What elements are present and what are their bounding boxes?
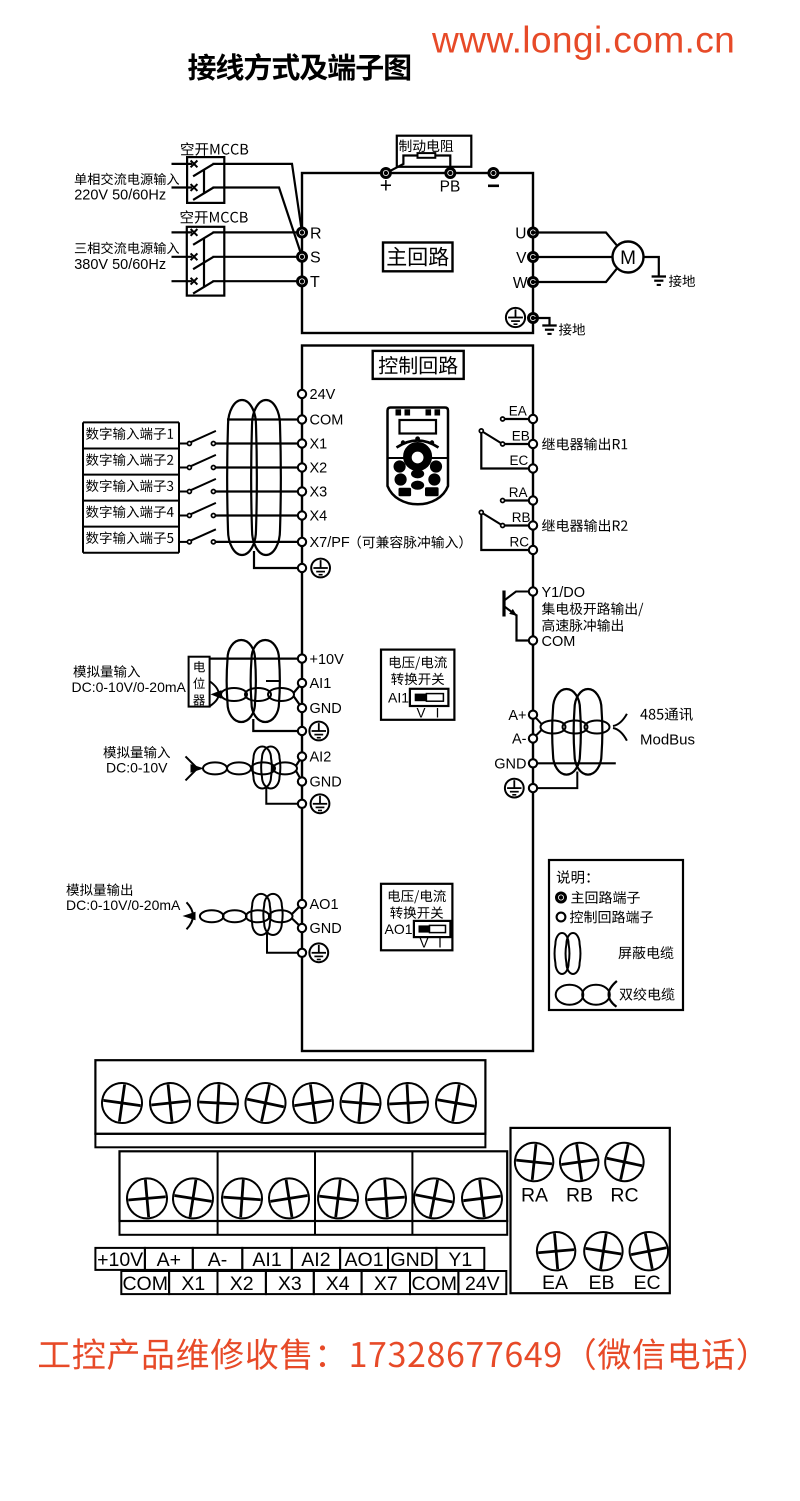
terminal 24V <box>298 390 306 398</box>
screw relay block EB <box>581 1229 625 1273</box>
wire main earth <box>533 318 550 325</box>
breaker blade MCCB2 pole1 <box>193 232 213 244</box>
strip 2 divider 3 <box>411 1151 413 1235</box>
relay R1 blade <box>483 432 501 443</box>
wire R2 common to RC <box>481 514 533 550</box>
MCCB2 link bar <box>203 239 205 288</box>
terminal AI2 <box>298 752 306 760</box>
svg-text:R: R <box>310 225 322 242</box>
svg-text:RB: RB <box>512 510 531 525</box>
screw terminal strip2 #8 <box>460 1176 505 1221</box>
braking resistor box 制动电阻 <box>397 136 472 167</box>
wire EA <box>503 418 533 420</box>
legend shielded cable symbol <box>555 933 570 974</box>
svg-text:www.longi.com.cn: www.longi.com.cn <box>431 19 735 61</box>
svg-text:X1: X1 <box>310 437 328 453</box>
wire chain to GND (AI2) <box>296 770 303 782</box>
svg-text:T: T <box>310 274 320 291</box>
V/I selector box (AI1) <box>381 650 454 720</box>
terminal GND (AI2) <box>298 777 306 785</box>
terminal strip 1 rim <box>95 1134 485 1148</box>
twisted pair chain (AI1) <box>221 688 247 701</box>
contact dot RB <box>501 524 505 528</box>
svg-text:X7: X7 <box>374 1273 398 1295</box>
switch S2 pivot dot <box>187 466 191 470</box>
terminal Y1/DO <box>529 587 537 595</box>
screw relay block RB <box>558 1140 601 1183</box>
strip 2 divider 1 <box>217 1151 219 1235</box>
svg-text:AI2: AI2 <box>301 1249 330 1271</box>
svg-text:GND: GND <box>310 701 342 717</box>
wire MCCB2 pole3 output to T <box>213 280 303 282</box>
terminal label row 2 boxes <box>121 1271 169 1294</box>
wire A- to chain <box>533 730 542 739</box>
svg-text:AI1: AI1 <box>252 1249 281 1271</box>
svg-text:RC: RC <box>610 1185 638 1207</box>
twisted pair fork arc (AO1) <box>187 902 194 929</box>
contact x mark MCCB2 pole2 <box>191 253 198 260</box>
svg-text:COM: COM <box>122 1273 168 1295</box>
breaker MCCB2 box <box>187 227 225 296</box>
PE circle symbol (AI2) <box>311 794 330 813</box>
wire L1 3ph input <box>172 231 193 233</box>
contact dot EA <box>501 417 505 421</box>
svg-text:A-: A- <box>208 1249 228 1271</box>
svg-text:EA: EA <box>509 403 527 418</box>
twisted pair fork (AI2) <box>186 756 198 768</box>
twisted pair chain (AO1) <box>200 910 224 922</box>
twisted pair fork (485) <box>613 714 627 726</box>
terminal PE (AO1) <box>298 949 306 957</box>
wire MCCB1 pole2 output to S <box>213 188 303 257</box>
svg-text:COM: COM <box>310 413 344 429</box>
text 数字输入端子1 <box>86 427 173 440</box>
svg-text:RA: RA <box>521 1185 548 1207</box>
terminal GND (AO1) <box>298 924 306 932</box>
wire digital input 1 to switch <box>179 443 189 445</box>
svg-text:EB: EB <box>588 1272 614 1294</box>
potentiometer box 电位器 <box>189 657 210 707</box>
minus mark (AI1) <box>266 680 280 682</box>
svg-text:+: + <box>380 175 392 198</box>
svg-text:AO1: AO1 <box>385 921 413 937</box>
switch slider (AI1) <box>410 689 449 706</box>
potentiometer wiper arc <box>210 682 219 707</box>
svg-text:X4: X4 <box>310 509 328 525</box>
wire shield drain (AI1) <box>253 719 298 731</box>
shielded cable ellipse pair (AI2) <box>253 747 272 789</box>
motor M1 circle <box>613 242 644 273</box>
screw terminal strip1 #5 <box>290 1080 335 1125</box>
text 双绞电缆 <box>620 988 675 1001</box>
wire shield drain (AO1) <box>267 933 298 953</box>
wire chain to GND (AO1) <box>292 918 303 928</box>
terminal strip 2 rim <box>120 1221 508 1235</box>
svg-text:+10V: +10V <box>310 652 345 668</box>
screw terminal strip1 #3 <box>197 1082 239 1124</box>
transistor Q1 emitter arrow <box>509 609 517 616</box>
text 模拟量输入 (AI1) <box>73 665 140 678</box>
wire L3 3ph input <box>172 280 193 282</box>
transistor Q1 bar <box>502 591 505 617</box>
screw terminal strip2 #4 <box>266 1176 312 1222</box>
svg-text:COM: COM <box>542 634 576 650</box>
screw relay block EA <box>535 1230 577 1272</box>
wire L1 input <box>172 163 193 165</box>
svg-text:EB: EB <box>512 428 530 443</box>
breaker blade MCCB1 pole1 <box>193 164 213 176</box>
wire switch 5 to terminal <box>215 541 302 543</box>
screw terminal strip1 #8 <box>433 1080 479 1126</box>
strip 2 divider 2 <box>314 1151 316 1235</box>
relay R2 blade <box>483 513 501 524</box>
wire U to motor <box>533 233 617 246</box>
text 三相交流电源输入 <box>75 242 179 254</box>
screw relay block RC <box>602 1139 648 1185</box>
terminal RB <box>529 521 537 529</box>
terminal T <box>297 276 308 287</box>
svg-text:+10V: +10V <box>97 1249 143 1271</box>
screw terminal strip2 #2 <box>170 1176 216 1222</box>
wire L2 3ph input <box>172 256 193 258</box>
terminal COM <box>298 415 306 423</box>
svg-text:PB: PB <box>440 179 461 196</box>
svg-text:AO1: AO1 <box>345 1249 384 1271</box>
screw terminal strip2 #6 <box>365 1177 408 1220</box>
breaker MCCB1 box <box>187 157 224 203</box>
control circuit box <box>302 346 533 1052</box>
switch S4 pivot dot <box>187 514 191 518</box>
text 说明： <box>557 870 590 884</box>
svg-text:W: W <box>513 275 528 292</box>
text 接地 (main box) <box>559 323 585 335</box>
svg-text:COM: COM <box>411 1273 457 1295</box>
wire digital input 3 to switch <box>179 491 189 493</box>
text 集电极开路输出/ <box>542 602 643 616</box>
PE circle symbol (digital) <box>311 559 330 578</box>
svg-text:V: V <box>419 935 428 950</box>
svg-text:RC: RC <box>510 534 530 549</box>
text 继电器输出R1 <box>542 438 627 451</box>
svg-text:A+: A+ <box>508 708 526 724</box>
text 485通讯 <box>640 708 692 721</box>
red footer text <box>39 1338 746 1370</box>
screw terminal strip2 #5 <box>316 1176 361 1221</box>
contact x mark MCCB1 pole1 <box>191 161 198 168</box>
terminal EB <box>529 440 537 448</box>
svg-text:X1: X1 <box>181 1273 205 1295</box>
svg-text:S: S <box>310 250 321 267</box>
motor earth symbol <box>652 275 666 277</box>
contact dot RA <box>501 499 505 503</box>
wire chain to AO1 <box>292 904 303 915</box>
main box PE circle symbol <box>506 308 525 327</box>
wire switch 4 to terminal <box>215 514 302 516</box>
switch S1 contact dot <box>211 442 215 446</box>
svg-text:AI2: AI2 <box>310 750 332 766</box>
contact x mark MCCB2 pole3 <box>191 278 198 285</box>
text 模拟量输入 (AI2) <box>103 746 170 759</box>
arrow into chain (AI2) <box>191 764 205 773</box>
text 单相交流电源输入 <box>75 173 179 185</box>
digital input table box <box>83 421 179 423</box>
svg-text:380V 50/60Hz: 380V 50/60Hz <box>74 257 166 273</box>
text 模拟量输出 (AO1) <box>66 883 132 896</box>
breaker blade MCCB2 pole3 <box>193 281 213 293</box>
svg-text:AO1: AO1 <box>310 897 339 913</box>
screw terminal strip2 #1 <box>125 1177 168 1220</box>
twisted pair chain (485) <box>541 721 566 734</box>
svg-text:24V: 24V <box>310 387 336 403</box>
svg-text:X2: X2 <box>230 1273 254 1295</box>
svg-text:DC:0-10V: DC:0-10V <box>106 760 168 776</box>
switch slider (AO1) <box>414 921 451 937</box>
screw relay block EC <box>626 1229 671 1274</box>
terminal PB (main) <box>445 168 456 179</box>
svg-text:GND: GND <box>310 775 342 791</box>
contact dot EB <box>501 442 505 446</box>
terminal S <box>297 251 308 262</box>
legend control terminal symbol <box>557 913 566 922</box>
svg-text:GND: GND <box>494 757 526 773</box>
svg-text:DC:0-10V/0-20mA: DC:0-10V/0-20mA <box>66 897 181 913</box>
switch S4 contact dot <box>211 514 215 518</box>
svg-text:U: U <box>515 225 526 242</box>
terminal EC <box>529 464 537 472</box>
terminal U <box>528 227 539 238</box>
terminal label row 1 boxes <box>95 1248 144 1270</box>
switch S3 contact dot <box>211 490 215 494</box>
svg-text:A+: A+ <box>157 1249 181 1271</box>
shielded cable ellipse pair (485) <box>552 689 581 775</box>
breaker blade MCCB2 pole2 <box>193 257 213 269</box>
svg-text:ModBus: ModBus <box>640 732 695 749</box>
label box 主回路 <box>383 243 453 272</box>
wire chain to AI1 <box>294 683 303 693</box>
terminal GND (AI1) <box>298 704 306 712</box>
text 转换开关 (AI1) <box>391 673 444 686</box>
PE circle symbol (485) <box>505 779 524 798</box>
keypad operator panel <box>388 408 449 505</box>
terminal GND (485) <box>529 759 537 767</box>
resistor symbol <box>418 153 436 158</box>
terminal AI1 <box>298 679 306 687</box>
svg-text:A-: A- <box>512 732 527 748</box>
svg-text:GND: GND <box>310 921 342 937</box>
label box 控制回路 <box>373 351 464 379</box>
svg-text:I: I <box>436 705 440 720</box>
label - <box>488 185 499 188</box>
text 主回路端子 <box>571 891 640 904</box>
switch S4 blade <box>191 503 216 514</box>
wire COM <box>227 418 302 420</box>
switch S5 pivot dot <box>187 540 191 544</box>
svg-text:M: M <box>620 248 636 269</box>
text 数字输入端子5 <box>86 532 173 545</box>
wire chain to GND (AI1) <box>294 696 303 708</box>
text 控制回路端子 <box>570 910 653 923</box>
svg-text:GND: GND <box>391 1249 434 1271</box>
screw terminal strip1 #2 <box>148 1081 192 1125</box>
wire emitter to COM <box>517 615 534 641</box>
relay R1 pivot dot <box>479 429 483 433</box>
switch S5 blade <box>191 529 216 540</box>
text 数字输入端子4 <box>86 506 174 519</box>
svg-text:RB: RB <box>566 1185 593 1207</box>
title 接线方式及端子图 <box>188 53 410 81</box>
terminal PE (AI1) <box>298 727 306 735</box>
wire motor to earth <box>644 257 659 276</box>
terminal main earth <box>528 313 539 324</box>
screw terminal strip2 #7 <box>411 1175 458 1222</box>
terminal RC <box>529 546 537 554</box>
wire switch 3 to terminal <box>215 490 302 492</box>
breaker blade MCCB1 pole2 <box>193 188 213 200</box>
terminal X1 <box>298 439 306 447</box>
PE circle symbol (AI1) <box>309 722 328 741</box>
wire V to motor <box>533 256 613 258</box>
terminal PE (485) <box>529 784 537 792</box>
label 空开MCCB (lower) <box>181 210 248 224</box>
terminal X4 <box>298 511 306 519</box>
terminal RA <box>529 496 537 504</box>
shielded cable ellipse pair (AO1) <box>251 894 270 935</box>
wire resistor to + terminal <box>387 156 418 173</box>
svg-text:AI1: AI1 <box>310 676 332 692</box>
wire L2 input <box>172 186 193 188</box>
switch S2 blade <box>191 455 216 466</box>
text 高速脉冲输出 <box>542 619 623 632</box>
contact x mark MCCB1 pole2 <box>191 184 198 191</box>
svg-text:AI1: AI1 <box>388 689 409 705</box>
terminal R <box>297 227 308 238</box>
twisted pair chain (AI2) <box>203 762 227 774</box>
terminal +10V <box>298 654 306 662</box>
wire shield drain (AI2) <box>266 786 298 804</box>
main earth symbol <box>542 324 556 326</box>
transistor Q1 emitter wire <box>505 607 517 616</box>
wire switch 2 to terminal <box>215 466 302 468</box>
svg-text:DC:0-10V/0-20mA: DC:0-10V/0-20mA <box>72 679 187 695</box>
svg-text:EC: EC <box>633 1272 660 1294</box>
text 数字输入端子3 <box>86 480 173 493</box>
terminal A+ <box>529 711 537 719</box>
wire MCCB1 pole1 output to R <box>213 164 303 233</box>
terminal EA <box>529 415 537 423</box>
text 数字输入端子2 <box>86 453 173 466</box>
shielded cable ellipse pair (AI1) <box>227 640 256 722</box>
shielded cable ellipse pair (digital) <box>227 400 257 555</box>
svg-text:220V 50/60Hz: 220V 50/60Hz <box>74 188 166 204</box>
terminal PE (AI2) <box>298 800 306 808</box>
wire shield drain (485) <box>537 772 577 789</box>
text （可兼容脉冲输入） <box>358 536 463 549</box>
wire shield drain (digital) <box>254 551 298 568</box>
wire EB <box>503 443 533 445</box>
svg-text:V: V <box>416 705 425 720</box>
terminal PE (digital shield) <box>298 564 306 572</box>
switch S5 contact dot <box>211 540 215 544</box>
main circuit box <box>302 173 533 333</box>
switch S3 pivot dot <box>187 490 191 494</box>
screw terminal strip1 #7 <box>387 1082 429 1124</box>
terminal A- <box>529 734 537 742</box>
wire switch 1 to terminal <box>215 442 302 444</box>
wire +10V <box>210 657 302 659</box>
screw terminal strip1 #6 <box>339 1081 382 1124</box>
svg-text:X4: X4 <box>326 1273 350 1295</box>
svg-text:Y1/DO: Y1/DO <box>542 585 586 601</box>
svg-text:EA: EA <box>542 1272 568 1294</box>
terminal - (main) <box>488 168 499 179</box>
switch S3 blade <box>191 479 216 490</box>
wire MCCB2 pole1 output to R <box>213 231 303 233</box>
wire digital input 5 to switch <box>179 541 189 543</box>
text 制动电阻 <box>399 139 453 152</box>
legend twisted pair symbol <box>556 985 584 1005</box>
legend main terminal symbol <box>556 892 567 903</box>
text 屏蔽电缆 <box>618 946 673 959</box>
svg-text:X2: X2 <box>310 461 328 477</box>
potentiometer wiper arrow <box>211 690 222 699</box>
label 空开MCCB (upper) <box>181 142 248 156</box>
text 电压/电流 (AO1) <box>389 890 446 904</box>
wire digital input 2 to switch <box>179 467 189 469</box>
terminal strip 1 body <box>95 1060 485 1134</box>
terminal COM (right) <box>529 636 537 644</box>
wire GND (485) <box>533 762 616 764</box>
terminal strip 2 body <box>120 1151 508 1221</box>
switch S1 blade <box>191 431 216 442</box>
terminal X3 <box>298 487 306 495</box>
terminal X7/PF <box>298 538 306 546</box>
svg-text:I: I <box>438 935 442 950</box>
legend box <box>549 860 683 1010</box>
transistor Q1 collector wire <box>505 592 533 600</box>
wire W to motor <box>533 268 617 282</box>
V/I selector box (AO1) <box>381 884 452 951</box>
svg-text:RA: RA <box>509 485 528 500</box>
screw terminal strip1 #4 <box>242 1079 289 1126</box>
arrow out (AO1) <box>183 912 196 921</box>
wire A+ to chain <box>533 715 542 725</box>
text 电位器 (vertical) <box>194 661 205 672</box>
PE circle symbol (AO1) <box>309 943 328 962</box>
terminal + (main) <box>380 168 391 179</box>
relay terminal block box <box>511 1128 670 1293</box>
wire RB <box>503 524 533 526</box>
svg-text:EC: EC <box>510 453 529 468</box>
terminal X2 <box>298 463 306 471</box>
text 转换开关 (AO1) <box>390 906 443 919</box>
wire resistor to PB terminal <box>435 156 450 173</box>
wire MCCB2 pole2 output to S <box>213 256 303 258</box>
text 电压/电流 (AI1) <box>390 656 447 670</box>
switch S1 pivot dot <box>187 442 191 446</box>
terminal V <box>528 252 539 263</box>
terminal AO1 <box>298 900 306 908</box>
screw terminal strip1 #1 <box>99 1080 144 1125</box>
contact x mark MCCB2 pole1 <box>191 229 198 236</box>
terminal W <box>528 277 539 288</box>
text 继电器输出R2 <box>542 519 628 532</box>
text 接地 (motor) <box>669 275 695 287</box>
switch S2 contact dot <box>211 466 215 470</box>
screw terminal strip2 #3 <box>221 1177 264 1220</box>
wire chain to AI2 <box>296 757 303 767</box>
svg-text:24V: 24V <box>465 1273 500 1295</box>
svg-text:X3: X3 <box>278 1273 302 1295</box>
